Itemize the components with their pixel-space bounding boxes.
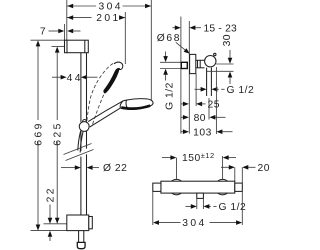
- svg-text:80: 80: [194, 113, 206, 124]
- svg-text:30: 30: [222, 34, 233, 46]
- svg-text:304: 304: [99, 2, 123, 13]
- svg-text:22: 22: [46, 186, 57, 202]
- svg-text:103: 103: [193, 127, 212, 138]
- svg-text:G 1/2: G 1/2: [227, 85, 255, 96]
- svg-text:G 1/2: G 1/2: [164, 82, 175, 110]
- svg-text:Ø 22: Ø 22: [103, 163, 127, 174]
- svg-text:304: 304: [182, 218, 206, 229]
- svg-text:201: 201: [96, 13, 120, 24]
- svg-text:Ø68: Ø68: [157, 33, 181, 44]
- svg-text:20: 20: [258, 163, 270, 174]
- svg-text:669: 669: [34, 121, 45, 145]
- svg-text:15 - 23: 15 - 23: [204, 23, 238, 34]
- svg-text:25: 25: [208, 100, 220, 111]
- svg-text:625: 625: [53, 121, 64, 145]
- svg-text:7: 7: [40, 27, 46, 38]
